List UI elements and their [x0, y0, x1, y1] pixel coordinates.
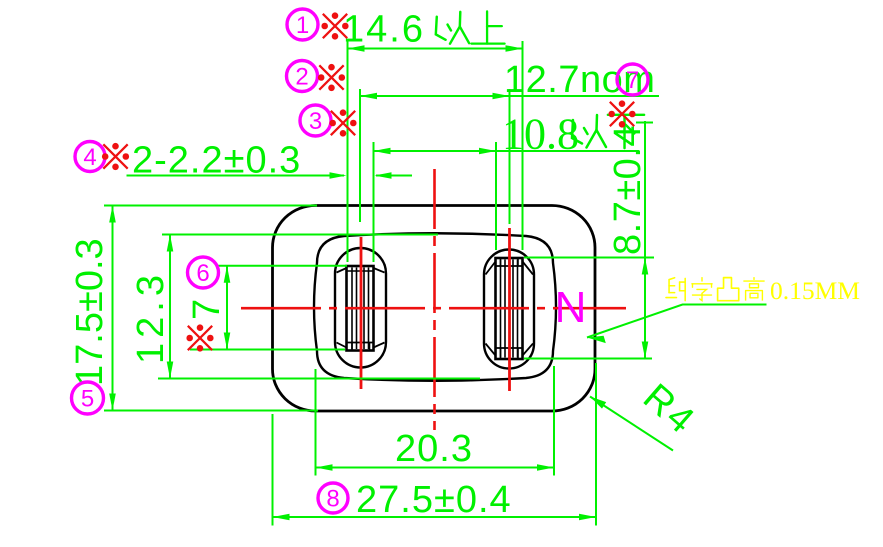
inner raised face outline: [314, 233, 556, 381]
right slot corner chamfer lines: [486, 262, 496, 275]
right slot bottom ledge: [497, 347, 522, 349]
dim line 12.7nom: [360, 95, 659, 97]
extension line 12.3 top: [162, 234, 438, 236]
balloon 8: [318, 483, 348, 513]
extension line 20.3 right: [553, 366, 555, 476]
svg-text:2-2.2±0.3: 2-2.2±0.3: [132, 140, 301, 182]
dim line 14.6: [348, 48, 523, 50]
extension line 17.5 bottom: [104, 410, 318, 412]
balloon 5: [72, 382, 104, 414]
left slot bottom ledge: [348, 342, 373, 344]
note text 印字凸高: [666, 278, 685, 301]
extension line dim3/4 left slot right edge: [373, 142, 375, 262]
svg-text:2: 2: [295, 64, 308, 91]
svg-text:20.3: 20.3: [395, 428, 473, 470]
arrow 12.7 right: [493, 93, 510, 100]
leader circle6 / extension 7 top: [218, 265, 347, 267]
svg-text:0.15MM: 0.15MM: [770, 276, 860, 305]
svg-text:3: 3: [309, 108, 322, 135]
balloon 2: [287, 61, 318, 92]
dim line 12.3 vertical: [169, 235, 171, 379]
arrow print note leader: [587, 336, 606, 343]
vertical center line: [433, 169, 436, 430]
extension line dim1 right: [522, 41, 524, 250]
leader line R4: [590, 397, 673, 451]
left slot inner wall lines: [351, 268, 353, 350]
arrow 20.3 right: [537, 464, 554, 471]
extension line dim3 right: [495, 142, 497, 250]
arrow 7 bottom: [224, 333, 231, 350]
svg-text:17.5±0.3: 17.5±0.3: [69, 238, 111, 386]
arrow R4 leader: [590, 397, 606, 409]
balloon 4: [75, 142, 105, 172]
left slot corner chamfer lines: [337, 268, 347, 273]
dim tail 2-2.2 right: [376, 175, 412, 177]
extension line dim2 left (slot center): [359, 89, 361, 222]
extension line 27.5 left: [272, 414, 274, 526]
extension line 8.7 top: [524, 257, 654, 259]
balloon 1: [287, 9, 318, 40]
arrow 27.5 right: [579, 514, 596, 521]
ref mark 2: [318, 64, 345, 91]
extension line 12.3 bottom: [158, 378, 480, 380]
arrow 8.7 bottom: [642, 342, 649, 359]
left slot center line: [360, 237, 363, 389]
left slot stadium outline: [335, 248, 386, 368]
left slot top inner ledge line: [348, 270, 373, 272]
right slot inner wall lines: [500, 260, 502, 358]
svg-text:12.3: 12.3: [130, 270, 172, 364]
svg-text:4: 4: [83, 144, 96, 171]
dim line 17.5 vertical: [112, 206, 114, 411]
balloon 6: [188, 257, 219, 288]
extension line 20.3 left: [315, 369, 317, 476]
balloon 7: [617, 64, 648, 95]
extension line dim1 left: [347, 41, 349, 262]
ref mark 6: [186, 324, 213, 351]
dim line 20.3: [316, 467, 555, 469]
arrow 17.5 top: [109, 206, 116, 223]
dim line 8.7 vertical: [644, 121, 646, 359]
svg-text:10.8: 10.8: [502, 110, 579, 159]
text 以下: [572, 115, 644, 148]
arrow 10.8 left: [374, 148, 391, 155]
dim line 27.5: [273, 516, 597, 518]
arrow 17.5 bottom: [109, 394, 116, 411]
outer body outline: [273, 206, 596, 412]
horizontal center line: [241, 307, 626, 310]
svg-text:8: 8: [326, 486, 339, 513]
extension line dim2 right (slot center): [509, 89, 511, 224]
extension line 7 bottom: [190, 349, 345, 351]
right slot rectangle: [496, 258, 523, 359]
balloon 3: [300, 105, 331, 136]
dim line 7 vertical: [226, 266, 228, 350]
dim leader 2-2.2 left: [127, 175, 345, 177]
svg-text:14.6: 14.6: [343, 9, 425, 51]
arrow 27.5 left: [273, 514, 290, 521]
svg-text:7: 7: [186, 299, 228, 320]
arrow 12.3 bottom: [167, 362, 174, 379]
svg-text:27.5±0.4: 27.5±0.4: [356, 479, 512, 521]
tick at top of 8.7 dim line: [636, 122, 653, 124]
svg-text:N: N: [555, 283, 587, 332]
svg-text:1: 1: [296, 12, 309, 39]
svg-text:7: 7: [626, 67, 639, 94]
arrow 12.7 left: [360, 93, 377, 100]
arrow 2-2.2 pointing right: [330, 172, 347, 179]
leader line print-height note: [587, 305, 767, 338]
arrow 8.7 top: [642, 258, 649, 275]
extension line 8.7 bottom: [524, 358, 652, 360]
extension line 27.5 right: [595, 363, 597, 526]
arrow 14.6 right: [506, 45, 523, 52]
dim line 10.8: [374, 150, 640, 152]
svg-text:5: 5: [81, 386, 94, 413]
ref mark 4: [102, 143, 129, 170]
arrow 7 top: [224, 266, 231, 283]
ref mark 3: [329, 109, 356, 136]
arrow 14.6 left: [348, 45, 365, 52]
right slot top ledge: [497, 265, 522, 267]
left slot rectangle: [347, 266, 374, 351]
svg-text:6: 6: [196, 260, 209, 287]
text 以上: [436, 11, 505, 43]
ref mark 1: [321, 12, 348, 39]
svg-text:8.7±0.4: 8.7±0.4: [607, 125, 649, 255]
ref mark 7: [608, 100, 635, 127]
arrow 20.3 left: [316, 464, 333, 471]
right slot stadium outline: [484, 250, 534, 369]
right slot center line: [508, 228, 511, 391]
arrow 2-2.2 pointing left: [375, 172, 392, 179]
extension line 17.5 top: [104, 205, 317, 207]
arrow 12.3 top: [167, 235, 174, 252]
arrow 10.8 right: [479, 148, 496, 155]
